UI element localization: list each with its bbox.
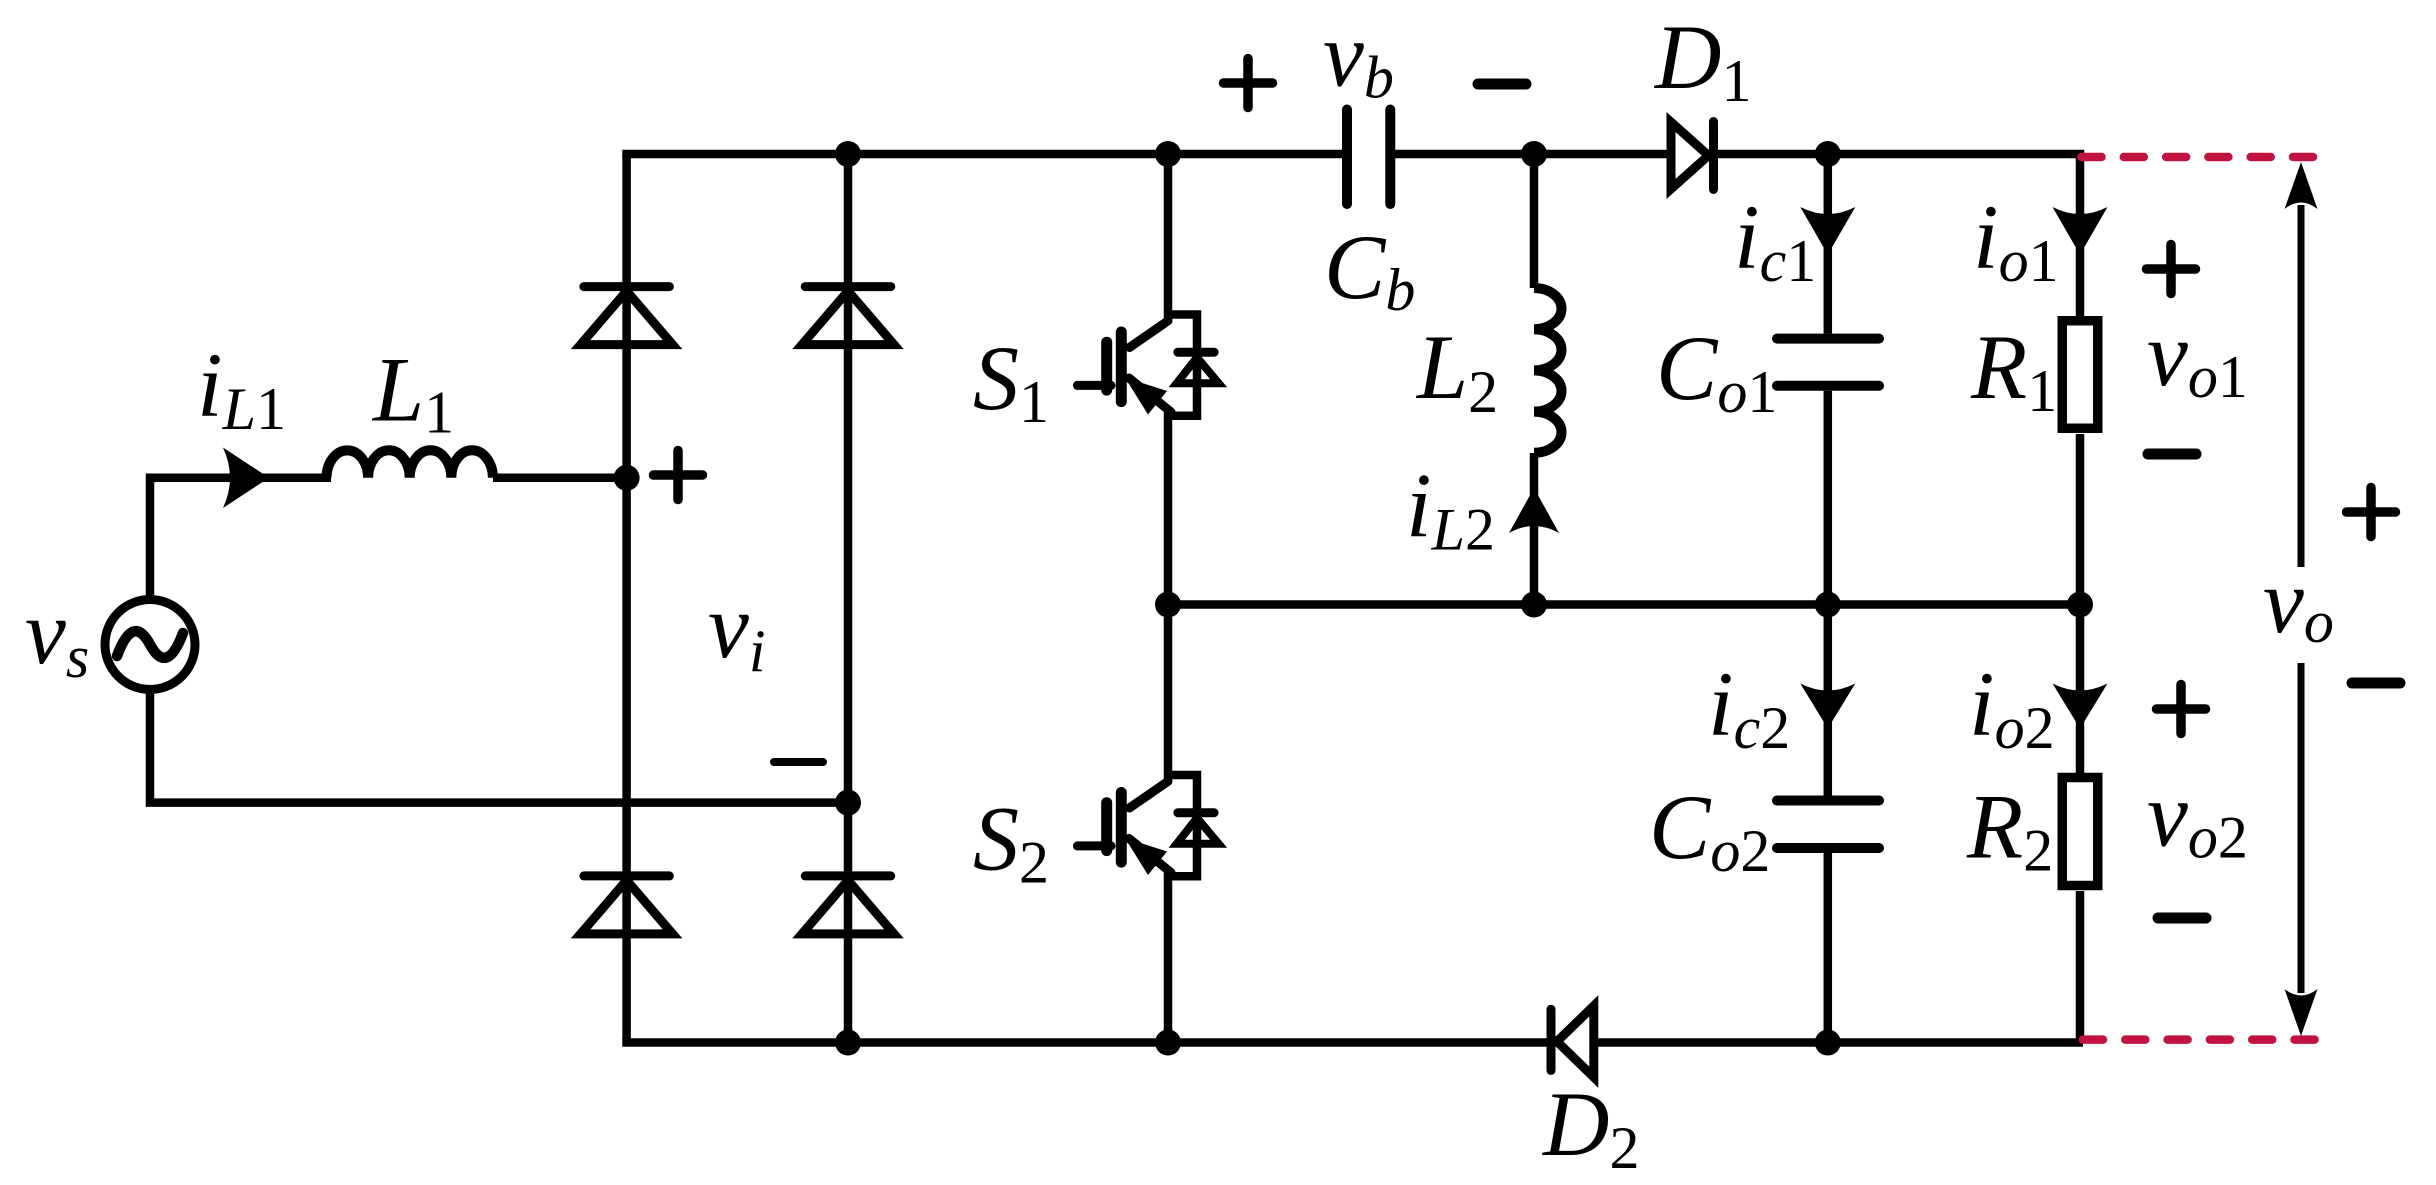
svg-text:iL1: iL1 xyxy=(197,334,286,442)
current arrow io1 xyxy=(2053,207,2108,255)
inductor L1 xyxy=(493,474,627,483)
diode bridge D-bot-right xyxy=(805,871,891,880)
wire R1 branch xyxy=(2076,154,2085,316)
diode bridge D-top-left xyxy=(581,122,1714,1078)
wire Co2 branch upper xyxy=(1824,605,1833,797)
svg-text:io1: io1 xyxy=(1973,186,2059,294)
wire source bottom lead xyxy=(150,690,848,803)
svg-text:vo2: vo2 xyxy=(2147,764,2248,871)
svg-text:R1: R1 xyxy=(1970,316,2057,424)
plus bridge input xyxy=(654,59,2401,919)
wire L2 lower lead xyxy=(1530,453,1539,605)
svg-text:io2: io2 xyxy=(1969,653,2055,761)
svg-text:ic1: ic1 xyxy=(1734,186,1816,294)
node mid rail Co xyxy=(1815,592,1841,618)
node source return junction xyxy=(835,790,861,816)
node bottom rail leg2 xyxy=(835,1030,861,1056)
wire top rail left xyxy=(622,150,1347,159)
arrow vo lower xyxy=(2298,663,2305,993)
svg-text:vo1: vo1 xyxy=(2147,303,2248,410)
wire Co1 branch upper xyxy=(1824,154,1833,334)
capacitor Co2 xyxy=(1777,796,1879,806)
svg-text:vb: vb xyxy=(1323,4,1394,111)
node top rail Cb-L2 xyxy=(1521,141,1547,167)
wire top rail Cb to D1 xyxy=(1390,150,1671,159)
voltage dashed line top xyxy=(2082,153,2319,162)
node top rail leg2 xyxy=(835,141,861,167)
current arrow iL1 xyxy=(223,448,269,509)
svg-text:vs: vs xyxy=(25,581,89,690)
wire L2 branch xyxy=(1530,154,1539,288)
svg-text:S2: S2 xyxy=(973,788,1049,896)
minus vo xyxy=(2352,678,2400,689)
capacitor Co1 xyxy=(1777,334,1879,344)
diode D2 xyxy=(1547,1009,1556,1070)
arrow vo upper xyxy=(2298,205,2305,567)
resistor R1 xyxy=(2062,321,2098,429)
plus vo2 xyxy=(2157,685,2206,734)
transistor S2 xyxy=(1077,781,1171,872)
wire S mid emitter lead xyxy=(1164,412,1173,605)
svg-text:vi: vi xyxy=(708,575,766,684)
wire bottom rail right xyxy=(1594,1038,2083,1047)
wire top rail D1 to R1 corner xyxy=(1714,150,2085,159)
current arrow ic2 xyxy=(1800,684,1855,729)
wire Co2 branch lower xyxy=(1824,853,1833,1043)
wire S leg collector xyxy=(1164,154,1173,321)
wire R2 branch xyxy=(2076,605,2085,774)
plus vo1 xyxy=(2147,245,2196,294)
svg-text:L2: L2 xyxy=(1415,316,1498,425)
transistor S1 xyxy=(1077,321,1171,412)
node top rail Co1 xyxy=(1815,141,1841,167)
node mid rail L2 xyxy=(1521,592,1547,618)
node top rail S leg xyxy=(1155,141,1181,167)
resistor R2 xyxy=(2062,778,2098,886)
capacitor Cb xyxy=(1347,110,1879,849)
wire bottom rail left xyxy=(622,1038,1551,1047)
node L1-bridge junction xyxy=(614,465,640,491)
diode bridge D-bot-left xyxy=(584,871,670,880)
wire bridge leg 2 xyxy=(844,154,853,1043)
wire S2 emitter lead xyxy=(1164,872,1173,1043)
svg-text:S1: S1 xyxy=(973,327,1049,435)
inductor L2 xyxy=(1534,288,1561,453)
diode S2 antiparallel xyxy=(1168,775,1197,809)
node bottom rail S leg xyxy=(1155,1030,1181,1056)
voltage dashed line bottom xyxy=(2083,1035,2318,1044)
wire Co1 branch lower xyxy=(1824,391,1833,605)
svg-text:R2: R2 xyxy=(1966,776,2053,884)
minus vo2 xyxy=(2158,913,2206,924)
minus vb xyxy=(1478,79,1526,90)
svg-text:ic2: ic2 xyxy=(1708,653,1790,761)
svg-text:Cb: Cb xyxy=(1324,216,1415,323)
diode bridge D-top-right xyxy=(805,282,891,291)
minus vo1 xyxy=(2148,449,2196,460)
plus vb xyxy=(1224,59,1273,108)
svg-text:Co1: Co1 xyxy=(1656,317,1777,425)
wire S2 collector lead xyxy=(1164,605,1173,782)
ac source vs xyxy=(105,600,195,690)
svg-text:L1: L1 xyxy=(371,339,454,446)
svg-text:D2: D2 xyxy=(1541,1073,1639,1181)
plus vo xyxy=(2347,488,2396,537)
wire mid rail xyxy=(1168,600,2080,609)
node bottom rail Co2 xyxy=(1815,1030,1841,1056)
svg-text:iL2: iL2 xyxy=(1406,455,1495,563)
current arrow iL2 xyxy=(1509,488,1559,533)
diode S1 antiparallel xyxy=(1168,315,1197,349)
minus bridge input xyxy=(774,758,823,766)
node mid rail S leg xyxy=(1155,592,1181,618)
wire bridge leg 1 xyxy=(622,154,631,1043)
diode D1 xyxy=(1709,122,1718,190)
svg-text:Co2: Co2 xyxy=(1649,776,1770,884)
current arrow io2 xyxy=(2053,684,2108,729)
node mid rail R xyxy=(2067,592,2093,618)
wire source top lead xyxy=(150,478,331,600)
svg-text:vo: vo xyxy=(2263,550,2334,655)
current arrow ic1 xyxy=(1800,207,1855,255)
svg-text:D1: D1 xyxy=(1653,6,1751,114)
